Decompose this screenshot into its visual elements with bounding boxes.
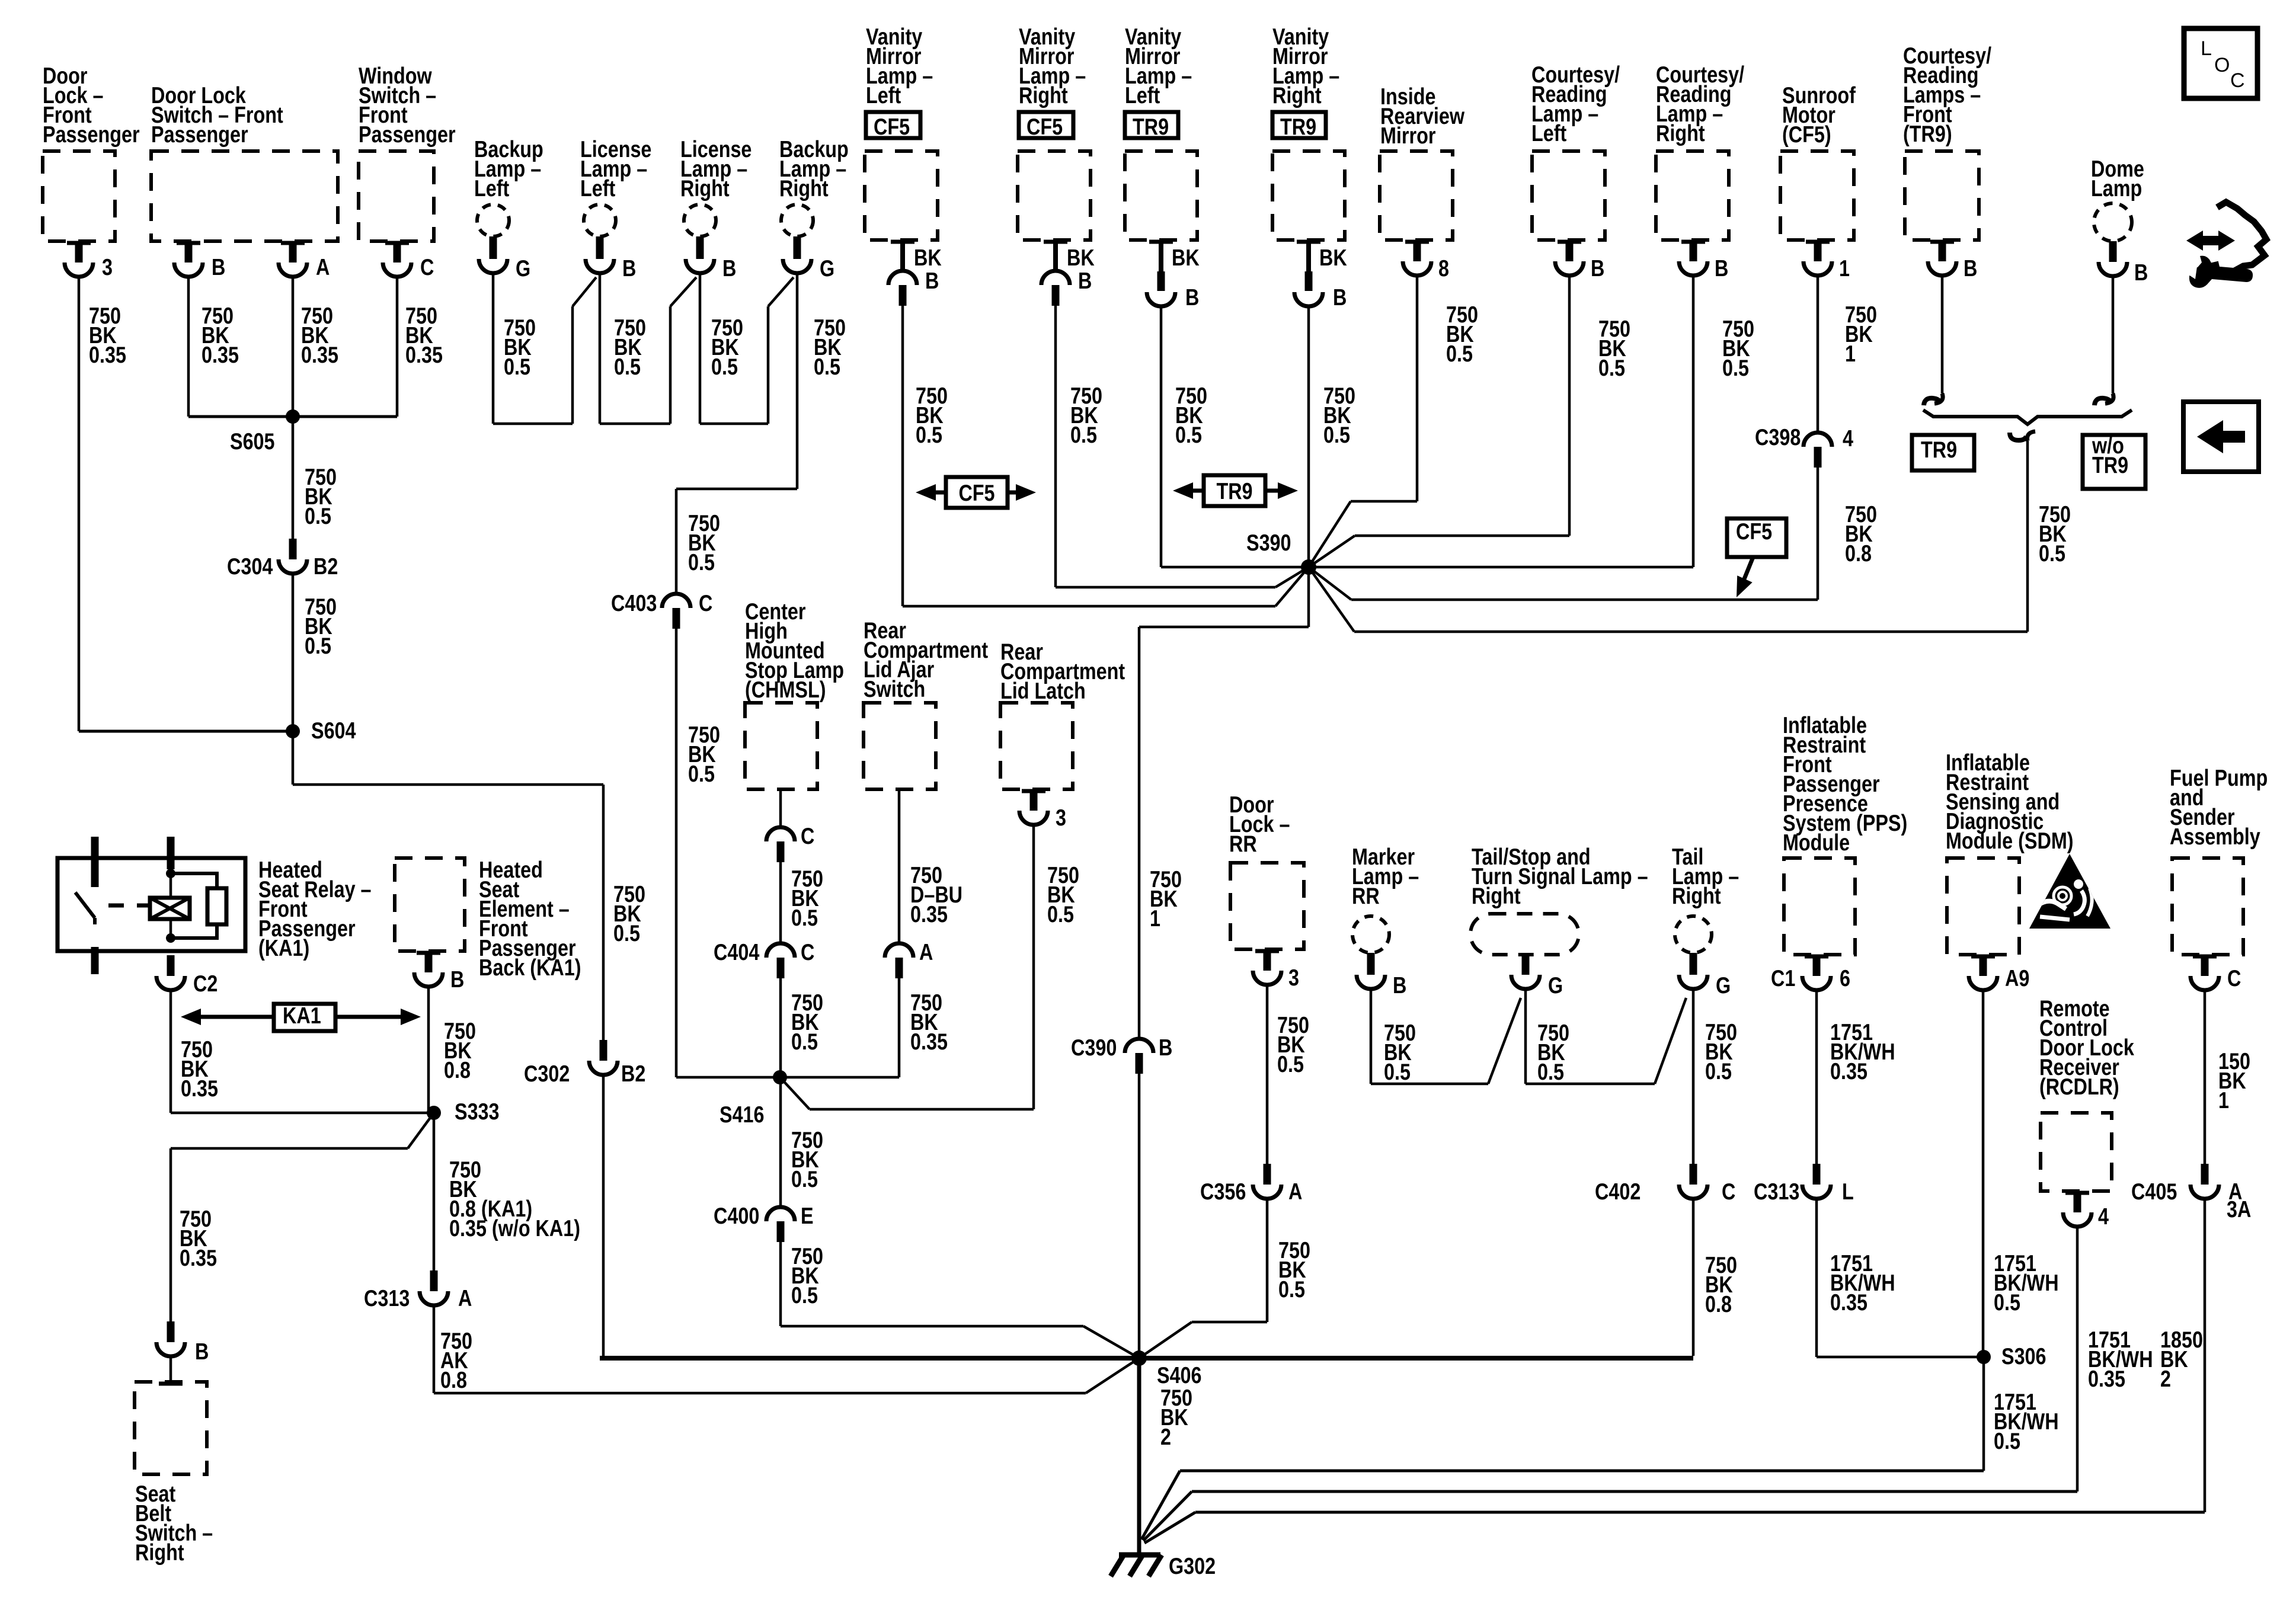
svg-text:C: C [2227,965,2241,991]
svg-text:Passenger: Passenger [151,121,248,147]
svg-text:B: B [622,255,636,281]
svg-text:B: B [212,254,225,280]
svg-text:C: C [2230,69,2245,92]
svg-text:0.5: 0.5 [1722,355,1749,380]
svg-text:B: B [2134,260,2148,285]
svg-text:S406: S406 [1157,1362,1202,1388]
svg-text:3: 3 [1288,965,1299,990]
svg-text:0.5: 0.5 [688,761,715,786]
svg-text:CF5: CF5 [874,114,910,139]
svg-text:0.5: 0.5 [613,920,640,946]
svg-text:0.35: 0.35 [1830,1058,1868,1084]
svg-text:Right: Right [680,175,730,201]
svg-text:0.35: 0.35 [301,342,338,367]
svg-text:0.5: 0.5 [1175,422,1202,447]
svg-text:0.5: 0.5 [791,1282,818,1308]
svg-text:A: A [919,939,933,965]
svg-text:B: B [722,255,736,281]
svg-text:TR9: TR9 [2092,452,2128,478]
svg-text:C313: C313 [1754,1179,1799,1204]
svg-text:B: B [925,268,939,293]
svg-text:Right: Right [779,175,829,201]
svg-text:CF5: CF5 [958,480,994,505]
svg-text:C: C [801,823,814,849]
svg-text:S605: S605 [230,428,275,454]
svg-text:Right: Right [1672,883,1721,908]
svg-text:(KA1): (KA1) [258,935,309,961]
svg-text:0.8: 0.8 [1845,540,1872,566]
svg-text:Left: Left [1531,120,1566,146]
svg-text:Module: Module [1783,830,1850,855]
svg-text:RR: RR [1352,883,1380,908]
svg-text:C400: C400 [714,1203,759,1228]
svg-text:0.35: 0.35 [910,1029,948,1054]
svg-text:B: B [1591,255,1604,281]
svg-text:Passenger: Passenger [359,121,456,147]
svg-text:0.5: 0.5 [1446,341,1473,366]
svg-text:TR9: TR9 [1280,114,1316,139]
svg-text:TR9: TR9 [1921,437,1957,462]
svg-text:0.35: 0.35 [405,342,443,367]
svg-text:3A: 3A [2227,1196,2251,1222]
svg-text:L: L [1842,1179,1854,1204]
svg-text:Mirror: Mirror [1380,123,1436,148]
svg-text:C: C [420,254,434,280]
svg-text:CF5: CF5 [1027,114,1063,139]
svg-text:BK: BK [914,245,942,270]
svg-text:Right: Right [1272,82,1322,108]
svg-text:4: 4 [2098,1204,2109,1229]
svg-text:0.5: 0.5 [688,549,715,575]
svg-text:0.35: 0.35 [910,901,948,927]
svg-text:0.5: 0.5 [791,1166,818,1192]
svg-text:BK: BK [1067,245,1095,270]
svg-text:S604: S604 [311,718,356,743]
svg-text:1: 1 [2218,1087,2229,1113]
svg-text:Module (SDM): Module (SDM) [1946,828,2074,853]
svg-text:C404: C404 [714,939,760,965]
svg-text:0.5: 0.5 [814,354,840,379]
svg-text:0.5: 0.5 [711,354,738,379]
svg-text:0.5: 0.5 [1994,1428,2020,1454]
svg-text:0.35: 0.35 [181,1076,218,1101]
svg-text:RR: RR [1229,831,1257,856]
svg-text:0.5: 0.5 [305,503,331,529]
svg-text:6: 6 [1840,965,1850,991]
svg-text:0.5: 0.5 [1994,1289,2020,1315]
svg-text:S306: S306 [2001,1343,2046,1369]
svg-text:Right: Right [1656,120,1705,146]
svg-text:C390: C390 [1071,1035,1117,1060]
svg-text:0.35: 0.35 [2088,1366,2125,1391]
svg-text:G: G [1716,972,1731,998]
svg-text:C1: C1 [1771,965,1795,991]
svg-text:C405: C405 [2131,1179,2177,1204]
svg-text:0.5: 0.5 [2039,540,2065,566]
svg-text:Passenger: Passenger [43,121,140,147]
svg-text:C302: C302 [524,1061,570,1086]
svg-text:1: 1 [1839,255,1850,281]
svg-text:0.5: 0.5 [1277,1051,1304,1077]
svg-text:A: A [458,1285,472,1311]
svg-text:KA1: KA1 [283,1003,321,1028]
svg-text:G: G [516,255,530,281]
svg-text:Lid Latch: Lid Latch [1000,678,1086,703]
svg-text:Back (KA1): Back (KA1) [479,955,581,980]
svg-text:0.35: 0.35 [180,1245,217,1270]
svg-text:B: B [1159,1035,1172,1060]
svg-text:C313: C313 [364,1285,410,1311]
svg-text:B: B [1078,268,1092,293]
svg-text:C: C [801,939,814,965]
svg-text:3: 3 [1056,805,1066,830]
svg-text:C2: C2 [193,971,218,996]
svg-text:0.5: 0.5 [791,905,818,930]
svg-text:Lamp: Lamp [2091,175,2142,201]
svg-text:(RCDLR): (RCDLR) [2039,1074,2119,1099]
svg-text:0.5: 0.5 [504,354,530,379]
svg-text:(TR9): (TR9) [1903,121,1952,146]
svg-text:B: B [1185,284,1199,310]
svg-text:2: 2 [2160,1366,2171,1391]
svg-text:A: A [1288,1179,1302,1204]
svg-text:1: 1 [1845,341,1856,366]
svg-text:0.35: 0.35 [89,342,126,367]
svg-text:0.5: 0.5 [1384,1059,1411,1084]
svg-text:S333: S333 [455,1099,500,1124]
svg-text:0.5: 0.5 [1323,422,1350,447]
svg-text:C304: C304 [227,553,273,579]
svg-text:BK: BK [1319,245,1347,270]
svg-text:4: 4 [1843,425,1853,451]
svg-text:0.8: 0.8 [440,1367,467,1393]
svg-text:0.5: 0.5 [1047,901,1074,927]
svg-text:B: B [450,966,464,992]
svg-text:C402: C402 [1595,1179,1641,1204]
svg-text:(CF5): (CF5) [1782,121,1831,147]
svg-text:(CHMSL): (CHMSL) [745,677,826,702]
svg-text:Left: Left [866,82,901,108]
svg-text:0.8: 0.8 [444,1057,471,1083]
svg-text:0.35 (w/o KA1): 0.35 (w/o KA1) [449,1215,580,1241]
svg-text:2: 2 [1160,1424,1171,1449]
svg-text:BK: BK [1172,245,1200,270]
svg-text:TR9: TR9 [1216,478,1252,504]
svg-text:0.5: 0.5 [1705,1058,1732,1084]
svg-text:0.5: 0.5 [1537,1059,1564,1084]
svg-text:B: B [1393,972,1406,998]
svg-text:0.5: 0.5 [1278,1276,1305,1302]
svg-text:Left: Left [474,175,509,201]
svg-text:Right: Right [1472,883,1521,908]
svg-text:O: O [2214,54,2230,76]
svg-text:A9: A9 [2005,965,2029,991]
svg-text:C356: C356 [1200,1179,1246,1204]
svg-text:3: 3 [102,254,113,280]
svg-text:0.5: 0.5 [916,422,942,447]
svg-text:S390: S390 [1246,530,1291,555]
svg-text:0.35: 0.35 [1830,1289,1868,1315]
svg-text:Assembly: Assembly [2170,824,2260,849]
svg-text:C398: C398 [1755,424,1801,450]
svg-text:C403: C403 [611,590,657,616]
svg-text:Left: Left [580,175,615,201]
svg-text:L: L [2201,37,2212,60]
svg-text:Switch: Switch [864,676,925,702]
svg-text:Right: Right [1019,82,1068,108]
svg-text:0.35: 0.35 [202,342,239,367]
svg-text:Right: Right [135,1539,184,1565]
svg-text:G: G [1548,972,1563,998]
svg-text:1: 1 [1150,905,1160,931]
svg-text:B: B [195,1339,209,1364]
svg-text:E: E [801,1203,814,1228]
svg-text:B2: B2 [621,1061,645,1086]
svg-text:S416: S416 [720,1102,765,1127]
svg-text:G: G [820,255,834,281]
svg-text:0.5: 0.5 [614,354,641,379]
svg-text:C: C [1722,1179,1735,1204]
svg-text:B: B [1964,255,1977,281]
svg-text:B: B [1333,284,1347,310]
svg-text:0.5: 0.5 [1598,355,1625,380]
svg-text:C: C [699,590,712,616]
svg-text:B2: B2 [314,553,338,579]
svg-text:Left: Left [1125,82,1160,108]
svg-text:B: B [1715,255,1728,281]
svg-text:0.5: 0.5 [791,1029,818,1054]
svg-text:G302: G302 [1169,1553,1216,1579]
svg-text:0.8: 0.8 [1705,1291,1732,1317]
svg-text:CF5: CF5 [1736,518,1772,544]
svg-text:0.5: 0.5 [1070,422,1097,447]
svg-text:8: 8 [1438,255,1449,281]
svg-text:0.5: 0.5 [305,633,331,658]
svg-text:A: A [316,254,330,280]
svg-text:TR9: TR9 [1133,114,1169,139]
